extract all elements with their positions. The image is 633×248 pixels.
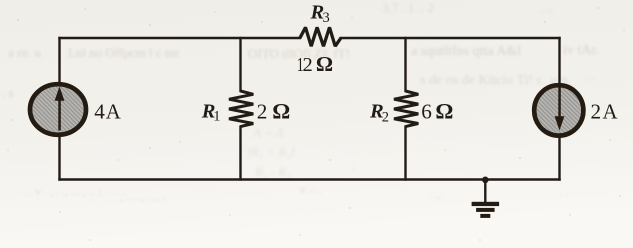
- svg-text:4: 4: [94, 100, 105, 124]
- svg-text:. .: . .: [560, 185, 569, 199]
- svg-text:2: 2: [303, 54, 313, 76]
- svg-text:a rn. u: a rn. u: [8, 45, 41, 60]
- svg-text:. .: . .: [585, 68, 595, 83]
- svg-text:A + A: A + A: [252, 125, 284, 140]
- svg-text:;: ;: [352, 158, 356, 173]
- svg-text:.: .: [332, 136, 335, 151]
- svg-text:Ω: Ω: [316, 52, 333, 76]
- svg-text:2: 2: [591, 100, 602, 124]
- svg-text:Lnl no Offpcm l c mr: Lnl no Offpcm l c mr: [68, 45, 180, 60]
- svg-text:2: 2: [382, 110, 389, 126]
- svg-text:a squtltfns qtta A&l: a squtltfns qtta A&l: [411, 44, 521, 59]
- svg-text:2: 2: [257, 100, 268, 124]
- svg-text:. s: . s: [2, 85, 14, 100]
- svg-text:A: A: [603, 101, 618, 124]
- svg-text:, . .. , . ,. .: , . .. , . ,. .: [120, 189, 165, 203]
- svg-text:Ω: Ω: [272, 99, 290, 124]
- svg-text:Ω: Ω: [435, 99, 453, 124]
- svg-text:3,7 . 1 .. 2: 3,7 . 1 .. 2: [382, 0, 434, 15]
- svg-text:1: 1: [213, 108, 220, 124]
- svg-text:. ..: . ..: [540, 0, 553, 15]
- svg-text:3: 3: [323, 10, 330, 26]
- svg-text:R₁ - R₂: R₁ - R₂: [254, 164, 291, 179]
- svg-text:lR₃ + R₁I: lR₃ + R₁I: [247, 144, 296, 159]
- svg-text:6: 6: [421, 100, 432, 124]
- svg-text:. ,.: . ,.: [430, 187, 442, 201]
- svg-text:. .. v . , . ., ... , .: . .. v . , . ., ... , .. ; . . . .: [20, 184, 125, 198]
- svg-text:iv tAr.: iv tAr.: [563, 43, 599, 58]
- svg-text:v .: .: v .: .: [300, 182, 321, 196]
- svg-text:A: A: [106, 101, 121, 124]
